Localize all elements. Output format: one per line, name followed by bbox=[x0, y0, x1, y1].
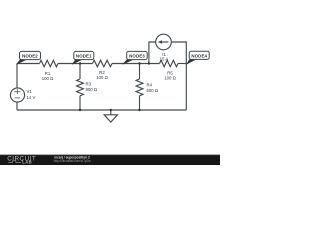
wire NODE4 branch down bbox=[185, 64, 187, 111]
node NODE3 label box bbox=[127, 51, 148, 59]
resistor R2 bbox=[93, 60, 112, 67]
svg-text:NODE1: NODE1 bbox=[76, 54, 92, 59]
wire R3 top bbox=[79, 64, 81, 80]
svg-text:15 A: 15 A bbox=[160, 56, 169, 61]
wire R1 to NODE1 bbox=[58, 63, 93, 65]
svg-text:V1: V1 bbox=[27, 89, 33, 94]
junction dot I1 loop left bbox=[148, 62, 150, 64]
svg-text:NODE4: NODE4 bbox=[191, 53, 207, 58]
node NODE1 flag pointer bbox=[72, 59, 83, 64]
junction dot R3 bottom bbox=[79, 109, 81, 111]
wire left branch V1 top bbox=[16, 64, 18, 89]
junction dot ground bbox=[110, 109, 112, 111]
node NODE3 flag pointer bbox=[122, 59, 134, 64]
footer bar bbox=[0, 155, 220, 165]
wire R4 bottom bbox=[139, 96, 141, 110]
node NODE2 flag pointer bbox=[16, 59, 28, 64]
svg-text:100 Ω: 100 Ω bbox=[42, 76, 54, 81]
I1 arrow bbox=[161, 41, 169, 43]
footer bar top fade bbox=[0, 154, 220, 155]
resistor R4 bbox=[136, 79, 143, 96]
wire R3 bottom bbox=[79, 96, 81, 110]
ground stub bbox=[110, 110, 112, 115]
I1 arrowhead bbox=[158, 40, 162, 44]
node NODE1 label box bbox=[74, 51, 94, 59]
wire R4 top bbox=[139, 64, 141, 80]
svg-text:NODE2: NODE2 bbox=[22, 54, 38, 59]
node NODE4 label box bbox=[189, 51, 209, 59]
svg-text:100 Ω: 100 Ω bbox=[164, 76, 176, 81]
wire top rail left: NODE2 corner to R1 bbox=[17, 63, 40, 65]
voltage source V1 bbox=[10, 88, 24, 102]
node NODE4 flag pointer bbox=[186, 59, 197, 65]
svg-text:14 V: 14 V bbox=[27, 95, 36, 100]
junction dot R4 bottom bbox=[138, 109, 140, 111]
V1 minus sign bbox=[15, 97, 20, 99]
resistor R1 bbox=[40, 60, 58, 67]
node NODE2 label box bbox=[20, 51, 41, 59]
ground symbol bbox=[104, 115, 117, 122]
svg-text:800 Ω: 800 Ω bbox=[86, 87, 98, 92]
wire I1 loop right leg bbox=[171, 42, 186, 64]
wire V1 bottom to rail bbox=[16, 102, 18, 110]
V1 plus sign bbox=[14, 89, 20, 94]
svg-text:600 Ω: 600 Ω bbox=[147, 88, 159, 93]
junction dot NODE3/R4 bbox=[138, 62, 140, 64]
bottom rail wire bbox=[17, 109, 186, 111]
svg-text:100 Ω: 100 Ω bbox=[96, 75, 108, 80]
footer logo waveform bbox=[8, 161, 21, 163]
wire R5 to NODE4 bbox=[178, 63, 186, 65]
wire I1 loop left leg bbox=[149, 42, 156, 64]
svg-text:LAB: LAB bbox=[22, 160, 32, 165]
resistor R5 bbox=[160, 60, 178, 67]
svg-text:R4: R4 bbox=[147, 83, 153, 88]
svg-text:NODE3: NODE3 bbox=[129, 54, 145, 59]
junction dot NODE1/R3 bbox=[79, 62, 81, 64]
svg-text:http://circuitlab.com/c/7p2w: http://circuitlab.com/c/7p2w bbox=[54, 159, 92, 163]
current source I1 bbox=[156, 34, 172, 50]
wire R2 to R5 bbox=[112, 63, 160, 65]
resistor R3 bbox=[77, 79, 84, 96]
svg-text:R3: R3 bbox=[86, 82, 92, 87]
